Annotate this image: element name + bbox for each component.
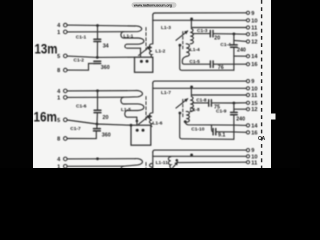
svg-text:15: 15 (251, 32, 257, 38)
right letterbox bar (271, 0, 300, 168)
svg-text:12: 12 (251, 107, 257, 113)
watermark pill top center (132, 2, 177, 8)
svg-text:11: 11 (251, 93, 257, 99)
dashed separator line right (261, 0, 263, 168)
svg-text:360: 360 (101, 65, 110, 71)
svg-text:240: 240 (236, 116, 245, 122)
svg-text:C1-1: C1-1 (76, 35, 87, 41)
svg-text:C1-7: C1-7 (70, 126, 81, 132)
wire terminal 8 jog to C1-7 (67, 132, 96, 139)
trimmer arrow L1-6 (139, 115, 151, 124)
node C1-4 top (233, 33, 236, 36)
svg-text:240: 240 (237, 47, 246, 53)
svg-text:11: 11 (251, 26, 257, 32)
svg-text:www.radiomuseum.org: www.radiomuseum.org (133, 4, 173, 8)
white notch on right bar (271, 114, 276, 120)
node junction (96, 157, 99, 160)
trimmer arrow L1-11 (173, 162, 178, 168)
inductor L1-10 partial (149, 164, 151, 169)
svg-text:CA: CA (258, 136, 266, 142)
coil base box with contact dots (131, 125, 151, 145)
svg-text:9: 9 (251, 148, 254, 154)
coil base box with contact dots (135, 57, 153, 72)
svg-text:14: 14 (251, 123, 258, 129)
svg-text:L1-5: L1-5 (121, 107, 131, 113)
svg-text:L1-8: L1-8 (190, 107, 200, 113)
core dashed line L1-6 (145, 97, 147, 121)
left vertical of output box (153, 13, 155, 15)
wire L1-5 bottom into box (136, 117, 138, 125)
left letterbox bar (0, 0, 33, 168)
wire terminal 4 rail (67, 158, 135, 160)
svg-text:5: 5 (57, 118, 60, 124)
svg-text:L1-2: L1-2 (155, 49, 165, 55)
svg-text:1: 1 (57, 165, 60, 169)
svg-text:9.1: 9.1 (218, 133, 225, 139)
svg-text:L1-4: L1-4 (190, 47, 200, 53)
inductor L1-9 partial (121, 159, 143, 173)
wire terminal 4 rail (67, 90, 135, 92)
node trimmer base (176, 159, 179, 162)
node L1-5 bottom (136, 120, 139, 123)
svg-text:8: 8 (57, 137, 60, 143)
svg-text:15: 15 (251, 101, 257, 107)
node at small box corner (130, 124, 133, 127)
node trimmer base (179, 44, 182, 47)
svg-text:L1-6: L1-6 (153, 120, 163, 126)
wire terminal 5 rail (67, 120, 131, 125)
svg-text:5: 5 (57, 54, 60, 60)
left vertical of output box (153, 150, 155, 152)
wire terminal 8 jog to C1-2 (67, 64, 94, 71)
core dashed line L1-10 (145, 163, 147, 169)
svg-text:C1-4: C1-4 (220, 42, 231, 48)
paper background (0, 0, 300, 168)
node L1-8 bottom (184, 120, 187, 123)
node L1-11 top (190, 154, 193, 157)
core dashed line L1-2 (145, 28, 147, 51)
svg-text:16: 16 (251, 62, 257, 68)
core dashed line L1-7 (182, 99, 184, 118)
svg-text:11: 11 (251, 160, 257, 166)
svg-text:16: 16 (251, 130, 257, 136)
svg-text:C1-10: C1-10 (191, 127, 204, 133)
svg-text:360: 360 (102, 132, 111, 138)
svg-text:1: 1 (57, 96, 60, 102)
svg-text:L1-7: L1-7 (161, 90, 171, 96)
svg-text:C1-9: C1-9 (216, 109, 227, 115)
svg-text:20: 20 (103, 115, 109, 121)
svg-text:13m: 13m (35, 41, 58, 57)
wire terminal 4 rail (67, 24, 135, 27)
wire terminal 5 rail (67, 56, 134, 57)
svg-text:20: 20 (214, 36, 220, 42)
svg-text:L1-1: L1-1 (123, 34, 133, 40)
svg-text:9: 9 (251, 11, 254, 17)
node C1-9 top (233, 102, 236, 105)
inner screen box left/bottom (180, 45, 234, 70)
wire terminal 1 (67, 31, 123, 33)
svg-text:34: 34 (103, 44, 109, 50)
trimmer arrow L1-7 (176, 99, 188, 108)
svg-text:16m: 16m (34, 109, 58, 125)
node L1-3 top (190, 18, 193, 21)
trimmer arrow L1-3 (176, 31, 188, 40)
svg-text:12: 12 (251, 40, 257, 46)
node C1-1 top (96, 24, 99, 27)
inner screen box left/bottom (180, 113, 234, 139)
node C1-6 top (96, 89, 99, 92)
node C1-7 top (96, 123, 99, 126)
svg-text:L1-11: L1-11 (156, 160, 169, 166)
svg-text:8: 8 (57, 68, 60, 74)
svg-text:L1-3: L1-3 (161, 25, 171, 31)
node trimmer base (179, 112, 182, 115)
wire terminal 1 (67, 96, 123, 98)
svg-text:1: 1 (57, 30, 60, 36)
svg-text:14: 14 (251, 54, 258, 60)
node C1-2 top (96, 56, 99, 59)
wire terminal 1 (67, 165, 123, 167)
core dashed line L1-3 (182, 32, 184, 51)
svg-text:C1-2: C1-2 (74, 57, 85, 63)
svg-text:C1-6: C1-6 (76, 104, 87, 110)
trimmer arrow L1-2 (139, 46, 151, 55)
node L1-7 top (190, 86, 193, 89)
svg-text:10: 10 (251, 18, 257, 24)
left vertical of output box (153, 81, 155, 83)
svg-text:9: 9 (251, 79, 254, 85)
svg-text:10: 10 (251, 86, 257, 92)
